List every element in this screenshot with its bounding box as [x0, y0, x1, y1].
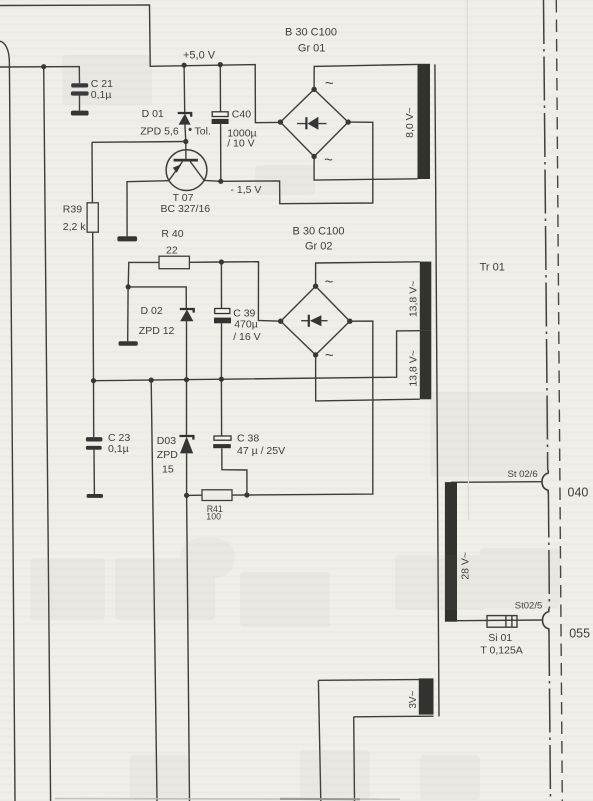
winding 8,0V~	[418, 64, 431, 179]
svg-text:3V~: 3V~	[408, 690, 419, 708]
svg-text:15: 15	[162, 464, 174, 476]
svg-text:~: ~	[325, 274, 334, 291]
svg-text:D 01: D 01	[142, 108, 164, 120]
winding 28V~	[445, 482, 457, 622]
capacitor C39 (electrolytic)	[214, 309, 231, 324]
svg-text:C40: C40	[232, 109, 251, 121]
svg-text:055: 055	[569, 627, 590, 641]
node Gr02 right vertex	[347, 319, 352, 324]
node C (rail0V)	[149, 378, 154, 383]
ground (C21)	[71, 111, 89, 116]
node Gr01 right vertex	[346, 119, 351, 124]
winding 13,8V~ lower	[420, 331, 432, 399]
wire 28V winding bottom through fuse to connector St02/5	[457, 619, 542, 622]
transistor T07	[166, 150, 207, 191]
svg-text:13,8 V~: 13,8 V~	[407, 281, 419, 318]
svg-text:C 38: C 38	[237, 432, 259, 444]
winding 3V~	[419, 678, 434, 714]
svg-text:B 30 C100: B 30 C100	[285, 26, 337, 38]
wire collector to node	[204, 179, 221, 182]
svg-text:T 0,125A: T 0,125A	[480, 644, 522, 656]
wire vertical below 3V bottom wire	[353, 717, 356, 801]
svg-text:Tr 01: Tr 01	[480, 261, 505, 273]
wire node B to D02	[128, 287, 186, 309]
wire C38 column and elbow	[221, 379, 247, 495]
asterisk tolerance mark	[189, 128, 192, 131]
svg-text:13,8 V~: 13,8 V~	[407, 350, 419, 387]
svg-text:D03: D03	[157, 435, 176, 447]
resistor R41	[202, 490, 232, 501]
node R41 right	[244, 492, 249, 497]
connector St02/6	[542, 470, 548, 494]
svg-text:~: ~	[325, 75, 334, 92]
wire R40 left lead to node B	[128, 262, 159, 287]
node Gr02 top vertex	[313, 284, 318, 289]
wire vertical below 3V top wire	[318, 680, 320, 801]
node rail0V / C38	[219, 377, 224, 382]
wire curved drop at left edge	[0, 41, 15, 801]
node +5V / D01	[182, 63, 187, 68]
node rail0V / C23	[91, 378, 96, 383]
wire +5V top rail from left edge to bridge Gr01 left vertex	[0, 5, 280, 123]
svg-text:Si 01: Si 01	[488, 632, 512, 644]
svg-text:/ 16 V: / 16 V	[233, 331, 260, 343]
wire long vertical below R41	[187, 495, 190, 801]
svg-text:Gr 02: Gr 02	[305, 241, 333, 253]
svg-text:T 07: T 07	[173, 192, 194, 204]
zener diode D03 ZPD15	[179, 436, 193, 453]
node R41 left	[184, 493, 189, 498]
wire R40 right lead	[189, 261, 221, 263]
node R40/C39	[219, 259, 224, 264]
zener diode D01 ZPD5,6	[178, 113, 192, 125]
svg-text:Tol.: Tol.	[195, 125, 211, 137]
wire 28V winding top to connector St02/6	[451, 481, 542, 484]
wire transformer core line	[435, 64, 439, 716]
capacitor C21	[71, 83, 89, 95]
svg-text:8,0 V~: 8,0 V~	[404, 107, 416, 138]
svg-text:~: ~	[324, 152, 333, 169]
page boundary dash-dot line	[544, 0, 551, 801]
ground (node B)	[119, 341, 138, 346]
svg-text:47 µ / 25V: 47 µ / 25V	[237, 445, 285, 457]
node D01 / base	[183, 139, 188, 144]
ground (C23)	[87, 494, 103, 498]
svg-text:100: 100	[206, 511, 221, 521]
wire C39 column	[220, 262, 222, 379]
wire long vertical from node C	[151, 380, 157, 801]
wire D02 column down	[186, 321, 188, 380]
page boundary dashed line	[556, 0, 562, 801]
svg-text:22: 22	[166, 245, 178, 257]
capacitor C40 (electrolytic)	[212, 112, 229, 124]
svg-text:~: ~	[325, 347, 334, 364]
resistor R39	[87, 203, 98, 232]
svg-text:R 40: R 40	[161, 228, 183, 240]
wire -1,5V return to Gr01 right vertex	[221, 122, 373, 204]
node Gr02 bottom vertex	[313, 352, 318, 357]
wire 0V rail y381 to winding center tap	[94, 331, 420, 381]
svg-text:ZPD 5,6: ZPD 5,6	[140, 125, 179, 137]
wire Gr01 bottom vertex to winding	[314, 157, 417, 181]
node Gr01 bottom vertex	[311, 154, 316, 159]
wire 3V winding top	[318, 678, 432, 681]
capacitor C38 (electrolytic)	[213, 436, 231, 448]
wire emitter to ground	[127, 181, 169, 237]
svg-text:040: 040	[568, 485, 589, 499]
bridge rectifier Gr02	[281, 286, 350, 355]
wire 3V winding bottom	[354, 715, 434, 718]
bridge rectifier Gr01	[280, 89, 348, 156]
winding 13,8V~ upper	[420, 262, 432, 331]
node B	[126, 284, 131, 289]
node -1,5V / C40	[218, 179, 223, 184]
connector St02/5	[543, 609, 549, 633]
fuse Si01	[487, 616, 517, 628]
node Gr01 left vertex	[278, 119, 283, 124]
wire Gr02 right vertex down to R41 rail	[247, 321, 373, 495]
svg-text:R39: R39	[63, 204, 82, 216]
wire C40 column	[219, 65, 222, 182]
ground (T07 emitter)	[117, 236, 137, 241]
node A (top-left rail)	[41, 64, 46, 69]
wire D01 column	[184, 65, 186, 159]
node Gr02 left vertex	[278, 319, 283, 324]
wire R41 leads	[187, 494, 247, 496]
resistor R40	[159, 256, 189, 269]
svg-text:/ 10 V: / 10 V	[227, 137, 254, 149]
wire node B to ground	[127, 287, 129, 341]
wire C23 column	[93, 381, 96, 494]
wire Gr01 top vertex to winding	[314, 64, 417, 89]
svg-text:D 02: D 02	[141, 305, 163, 317]
wire R39 column	[92, 142, 94, 380]
svg-text:+5,0 V: +5,0 V	[183, 49, 216, 61]
wire Gr02 top vertex to winding	[316, 262, 420, 286]
svg-text:0,1µ: 0,1µ	[108, 443, 129, 455]
wire D03 column	[186, 380, 188, 496]
svg-text:470µ: 470µ	[234, 318, 258, 330]
node Gr01 top vertex	[311, 87, 316, 92]
svg-text:BC 327/16: BC 327/16	[161, 203, 211, 215]
svg-text:2,2 k: 2,2 k	[63, 221, 87, 233]
svg-text:ZPD 12: ZPD 12	[139, 325, 175, 337]
wire base rail y141	[92, 141, 186, 144]
zener diode D02 ZPD12	[180, 309, 194, 321]
wire Gr02 bottom vertex to winding	[316, 355, 420, 401]
wire left branch to C21	[0, 67, 80, 84]
node +5V / C40	[218, 62, 223, 67]
wire long vertical from node A	[44, 67, 51, 801]
svg-text:B 30 C100: B 30 C100	[293, 225, 345, 237]
wire 13,8V rail to Gr02 left vertex	[221, 262, 280, 322]
svg-text:Gr 01: Gr 01	[298, 43, 326, 55]
node rail0V / D03	[184, 377, 189, 382]
capacitor C23	[86, 437, 103, 450]
svg-text:ZPD: ZPD	[157, 449, 178, 461]
